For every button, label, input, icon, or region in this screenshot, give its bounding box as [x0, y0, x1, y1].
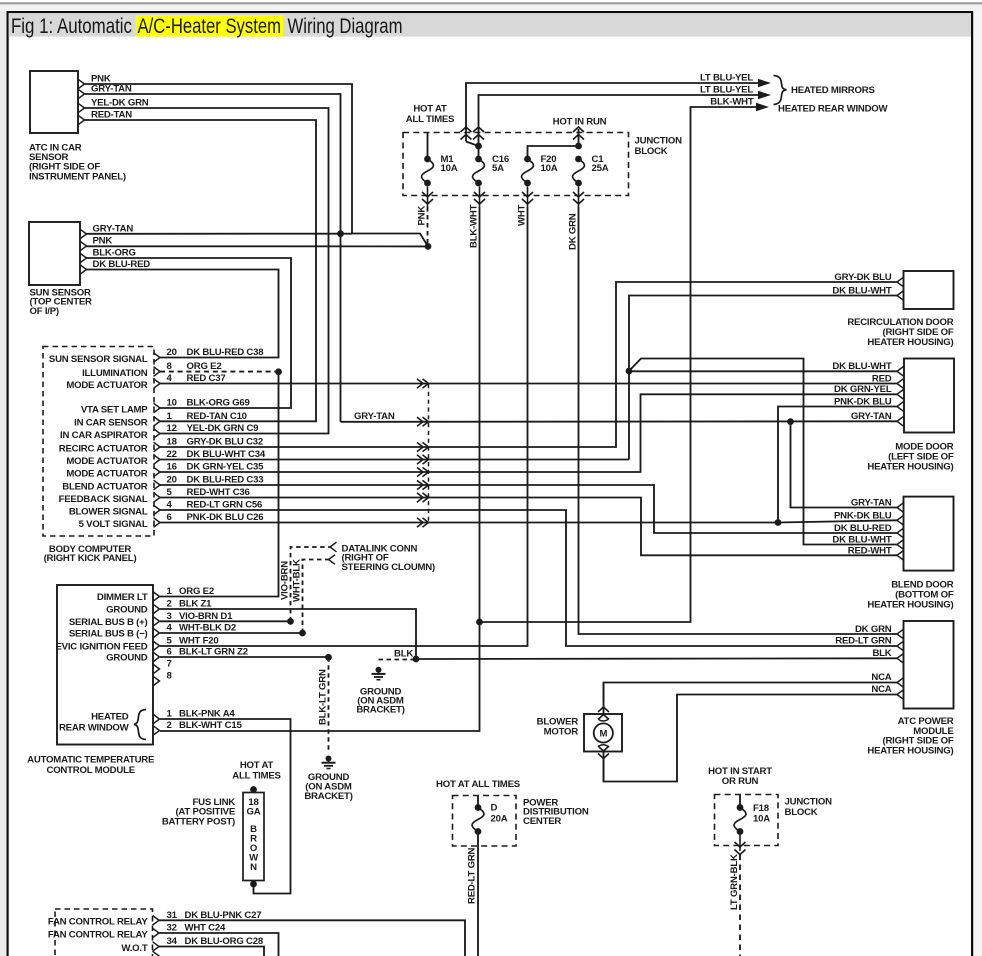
junction block dashed box (F18) — [715, 795, 779, 846]
svg-text:4: 4 — [167, 500, 173, 511]
svg-text:6: 6 — [167, 647, 172, 658]
svg-text:BLK Z1: BLK Z1 — [179, 599, 212, 610]
svg-text:20A: 20A — [491, 813, 508, 824]
svg-text:ALL TIMES: ALL TIMES — [232, 770, 281, 781]
ATC module pin 2 (BLK Z1) — [106, 599, 212, 616]
connector on DK GRN-YEL wire — [417, 467, 429, 476]
svg-text:HEATER HOUSING): HEATER HOUSING) — [867, 745, 953, 756]
svg-text:ORG E2: ORG E2 — [179, 586, 214, 597]
body computer pin 1 (RED-TAN C10) — [74, 411, 247, 429]
pin 1 of blend door — [897, 503, 904, 513]
body computer pin 10 (BLK-ORG G69) — [81, 398, 250, 416]
svg-text:BLK-LT GRN Z2: BLK-LT GRN Z2 — [179, 647, 248, 658]
wire DK GRN from C1 fuse to ATC power module — [568, 207, 897, 634]
body computer pin 16 (DK GRN-YEL C35) — [66, 462, 264, 480]
svg-text:IN CAR SENSOR: IN CAR SENSOR — [74, 418, 148, 429]
svg-text:BLK-WHT: BLK-WHT — [469, 204, 480, 248]
svg-text:GRY-DK BLU: GRY-DK BLU — [834, 272, 891, 283]
svg-text:32: 32 — [167, 923, 177, 934]
label HOT AT ALL TIMES (junction block) — [406, 104, 455, 125]
svg-text:PNK: PNK — [417, 206, 428, 226]
svg-text:10A: 10A — [753, 814, 770, 825]
svg-text:IN CAR ASPIRATOR: IN CAR ASPIRATOR — [60, 430, 148, 441]
svg-text:JUNCTION: JUNCTION — [635, 136, 683, 147]
label HEATED REAR WINDOW — [778, 103, 889, 114]
svg-text:DK BLU-RED C33: DK BLU-RED C33 — [187, 475, 264, 486]
M1 output arrows — [422, 187, 433, 208]
svg-text:HEATER HOUSING): HEATER HOUSING) — [867, 599, 953, 610]
label DK GRN at ATC power module — [855, 624, 892, 635]
svg-text:1: 1 — [167, 586, 173, 597]
svg-text:VIO-BRN: VIO-BRN — [280, 561, 291, 600]
svg-text:16: 16 — [167, 462, 177, 473]
svg-text:WHT F20: WHT F20 — [179, 635, 219, 646]
pin NCA 2 of ATC power module — [897, 690, 904, 700]
svg-text:8: 8 — [167, 671, 173, 682]
wire DK BLU-WHT to blend door (upper run) — [629, 359, 897, 545]
junction block dashed box — [403, 133, 629, 196]
svg-text:GA: GA — [247, 807, 261, 818]
blower motor box — [584, 714, 622, 752]
title bar highlight — [136, 15, 284, 37]
svg-text:RED-TAN: RED-TAN — [91, 109, 132, 120]
brace for heated mirrors — [774, 76, 787, 105]
pin 1 of ATC sensor — [78, 79, 85, 89]
ATC module pin 8 — [153, 671, 173, 686]
datalink connector fork 1 — [330, 542, 337, 552]
svg-text:EVIC IGNITION FEED: EVIC IGNITION FEED — [56, 641, 148, 652]
wire DK BLU-ORG C28 — [159, 947, 264, 956]
wire PNK from M1 fuse (dashed) — [417, 206, 428, 244]
svg-text:INSTRUMENT PANEL): INSTRUMENT PANEL) — [29, 171, 126, 182]
svg-text:YEL-DK GRN C9: YEL-DK GRN C9 — [187, 423, 259, 434]
body computer pin 20 (DK BLU-RED C38) — [49, 347, 264, 365]
svg-text:LT BLU-YEL: LT BLU-YEL — [700, 72, 753, 83]
ground (on ASDM bracket) lower — [322, 756, 336, 769]
arrow to heated mirrors 2 — [700, 84, 771, 99]
wire NCA (blower return) — [604, 684, 898, 782]
svg-text:20: 20 — [167, 347, 177, 358]
wire PNK from sun sensor — [87, 235, 426, 246]
wire BLK-LT GRN Z2 from ATC module pin 6 — [160, 656, 326, 658]
svg-text:7: 7 — [167, 659, 172, 670]
F20 output arrows — [522, 187, 533, 208]
svg-text:DK BLU-RED: DK BLU-RED — [834, 523, 892, 534]
svg-text:1: 1 — [167, 411, 173, 422]
svg-text:2: 2 — [167, 599, 172, 610]
svg-text:WHT C24: WHT C24 — [185, 923, 226, 934]
body computer pin 8 (ORG E2) — [82, 361, 221, 379]
connector on DK BLU-WHT wire — [417, 455, 429, 464]
pin 5 of mode door — [897, 417, 904, 427]
blower motor circle — [594, 723, 613, 742]
wire PNK from ATC sensor to M1 fuse net — [85, 73, 429, 246]
label HOT IN START OR RUN — [708, 766, 772, 787]
svg-text:GRY-DK BLU C32: GRY-DK BLU C32 — [187, 437, 264, 448]
svg-text:N: N — [250, 862, 257, 873]
svg-text:DK BLU-ORG C28: DK BLU-ORG C28 — [185, 936, 264, 947]
svg-text:STEERING CLOUMN): STEERING CLOUMN) — [342, 562, 436, 573]
svg-text:D: D — [491, 803, 498, 814]
mode door caption — [867, 442, 953, 473]
wire GRY-TAN from sun sensor — [87, 223, 353, 234]
wire LT BLU-YEL riser 2 (to heated mirrors) — [479, 95, 764, 146]
C16 output arrows — [474, 187, 485, 208]
svg-text:6: 6 — [167, 512, 172, 523]
label HOT AT ALL TIMES (fusible link) — [232, 760, 281, 781]
svg-text:VIO-BRN D1: VIO-BRN D1 — [179, 611, 233, 622]
label RED-LT GRN at ATC power module — [835, 636, 892, 647]
svg-text:BATTERY POST): BATTERY POST) — [162, 816, 235, 827]
wire LT BLU-YEL riser 1 (to heated mirrors) — [466, 83, 763, 146]
fan control relay pin 34 (DK BLU-ORG C28) — [121, 936, 263, 954]
wire BLK-WHT branch to heated rear window — [480, 107, 762, 622]
svg-text:5: 5 — [167, 487, 173, 498]
pin BLK of ATC power module — [897, 654, 904, 664]
fuse F18 10A feed stub — [739, 795, 741, 808]
svg-text:FAN CONTROL RELAY: FAN CONTROL RELAY — [48, 917, 148, 928]
pin NCA 1 of ATC power module — [897, 678, 904, 688]
wire DK BLU-WHT from body computer pin 22 (riser) — [160, 371, 629, 460]
connector arrows up (riser 2) — [473, 127, 484, 140]
body computer dashed box — [43, 347, 154, 537]
svg-text:BLOWER: BLOWER — [537, 716, 579, 727]
svg-text:5 VOLT SIGNAL: 5 VOLT SIGNAL — [79, 519, 148, 530]
wire WHT-BLK D2 stub — [160, 632, 300, 634]
svg-text:DK GRN-YEL C35: DK GRN-YEL C35 — [187, 462, 265, 473]
svg-text:NCA: NCA — [871, 672, 891, 683]
svg-text:GROUND: GROUND — [106, 605, 148, 616]
fuse M1 10A — [422, 154, 458, 186]
svg-text:DK GRN: DK GRN — [855, 624, 892, 635]
C1 feed node — [575, 143, 582, 150]
svg-text:DK BLU-WHT: DK BLU-WHT — [832, 361, 891, 372]
wire GRY-TAN to blend door — [791, 422, 898, 509]
heated rear window pins of ATC module — [153, 709, 242, 736]
node BLK junction — [413, 656, 420, 663]
pin 4 of blend door — [897, 540, 904, 550]
svg-text:18: 18 — [167, 437, 178, 448]
svg-text:RED-TAN C10: RED-TAN C10 — [187, 411, 247, 422]
svg-text:HEATED: HEATED — [91, 712, 129, 723]
ATC power module box — [904, 621, 954, 709]
F18 output arrows — [735, 832, 746, 855]
wire VIO-BRN D1 stub — [160, 620, 288, 622]
svg-text:MOTOR: MOTOR — [544, 727, 579, 738]
connector arrows up (riser 1) — [461, 127, 472, 140]
sun sensor box — [29, 222, 80, 285]
pin 4 of ATC sensor — [78, 115, 85, 125]
body computer pin 18 (GRY-DK BLU C32) — [59, 437, 263, 455]
ATC module pin 7 — [153, 659, 172, 674]
wire WHT C24 — [159, 933, 279, 956]
wire ORG E2 (dashed) from body computer pin 8 — [160, 371, 276, 373]
recirculation door caption — [847, 317, 954, 348]
svg-text:25A: 25A — [592, 163, 609, 174]
inline connector dashed line (instrument panel connector) — [428, 384, 430, 523]
fan control relay pin 31 (DK BLU-PNK C27) — [48, 910, 262, 928]
fuse C1 25A — [573, 154, 609, 186]
svg-text:GROUND: GROUND — [106, 653, 148, 664]
blend door box — [904, 497, 954, 571]
node BLK-LT GRN junction — [325, 654, 332, 661]
node WHT-BLK junction — [299, 630, 306, 637]
wire BLK-ORG from sun sensor to body computer pin 10 — [87, 247, 292, 408]
svg-text:20: 20 — [167, 475, 177, 486]
C16 feed node — [475, 143, 482, 150]
wire DK BLU-RED to blend door (from body computer pin 20) — [160, 485, 897, 534]
svg-text:GRY-TAN: GRY-TAN — [93, 223, 134, 234]
svg-text:HEATER HOUSING): HEATER HOUSING) — [867, 337, 953, 348]
wire RED C37 to mode door (from body computer pin 4) — [160, 373, 897, 384]
svg-text:CONTROL MODULE: CONTROL MODULE — [46, 765, 135, 776]
svg-text:DK BLU-WHT: DK BLU-WHT — [832, 535, 891, 546]
svg-text:GRY-TAN: GRY-TAN — [91, 83, 132, 94]
wire GRY-DK BLU to recirculation door (from body computer pin 18) — [160, 272, 897, 447]
wire WHT-BLK to datalink connector (dashed) — [292, 559, 329, 633]
svg-text:BLK-WHT: BLK-WHT — [710, 96, 754, 107]
pin RED-LT GRN of ATC power module — [897, 641, 904, 651]
node DK BLU-WHT junction — [626, 368, 633, 375]
svg-text:YEL-DK GRN: YEL-DK GRN — [91, 97, 149, 108]
svg-text:DK BLU-WHT: DK BLU-WHT — [832, 286, 891, 297]
svg-text:MODE ACTUATOR: MODE ACTUATOR — [66, 380, 147, 391]
wire WHT from F20 fuse to ATC module pin 5 — [160, 204, 528, 646]
svg-text:5: 5 — [167, 635, 173, 646]
svg-text:BRACKET): BRACKET) — [304, 791, 352, 802]
ground caption lower — [304, 772, 352, 802]
heated rear window label with brace — [59, 710, 146, 740]
wire HOT IN RUN feed (C1 riser) — [578, 129, 580, 146]
svg-text:PNK-DK BLU C26: PNK-DK BLU C26 — [187, 512, 264, 523]
svg-text:FEEDBACK SIGNAL: FEEDBACK SIGNAL — [59, 494, 148, 505]
svg-text:BLK-WHT C15: BLK-WHT C15 — [179, 720, 242, 731]
pin 2 of ATC sensor — [78, 89, 85, 99]
wire BLK-PNK A4 from ATC module to fusible link — [160, 719, 291, 894]
svg-text:SUN SENSOR SIGNAL: SUN SENSOR SIGNAL — [49, 354, 148, 365]
node GRY-TAN junction — [337, 230, 344, 237]
svg-text:BLK: BLK — [394, 649, 413, 660]
pin 1 of mode door — [897, 367, 904, 377]
svg-text:OF I/P): OF I/P) — [30, 306, 59, 317]
svg-text:DK GRN: DK GRN — [568, 213, 579, 250]
wire DK BLU-WHT to mode door — [629, 361, 897, 372]
svg-text:RED: RED — [872, 373, 892, 384]
wire GRY-TAN from ATC sensor (down to GRY-TAN bus) — [85, 83, 341, 422]
svg-text:SERIAL BUS B (−): SERIAL BUS B (−) — [69, 629, 148, 640]
wire RED-WHT to blend door (from body computer pin 5) — [160, 498, 897, 557]
svg-text:GRY-TAN: GRY-TAN — [851, 498, 892, 509]
wire NCA (blower feed) — [604, 672, 898, 702]
automatic temperature control module caption — [27, 755, 155, 776]
svg-text:HOT IN RUN: HOT IN RUN — [553, 117, 607, 128]
svg-text:10: 10 — [167, 398, 177, 409]
svg-text:REAR WINDOW: REAR WINDOW — [59, 723, 130, 734]
label HOT IN RUN — [553, 117, 607, 128]
svg-text:BLK-ORG: BLK-ORG — [93, 247, 136, 258]
svg-text:2: 2 — [167, 720, 172, 731]
svg-text:RED-LT GRN C56: RED-LT GRN C56 — [187, 500, 263, 511]
node GRY-TAN split — [787, 418, 794, 425]
body computer pin 6 (PNK-DK BLU C26) — [79, 512, 264, 530]
label HOT AT ALL TIMES (power distribution center) — [436, 779, 521, 790]
pin 3 of mode door — [897, 390, 904, 400]
pin 4 of mode door — [897, 402, 904, 412]
fuse D 20A — [472, 803, 508, 835]
datalink connector caption — [342, 543, 436, 573]
svg-text:12: 12 — [167, 423, 177, 434]
fan control relay pin 32 (WHT C24) — [48, 923, 226, 941]
C1 output arrows — [573, 187, 584, 208]
pin 3 of blend door — [897, 528, 904, 538]
body computer pin 20 (DK BLU-RED C33) — [62, 475, 263, 493]
wire BLK (dashed) to ground — [379, 649, 415, 660]
wire BLK Z1 from ATC module pin 2 — [160, 609, 416, 659]
blower motor label — [537, 716, 579, 737]
fuse M1 10A feed stub — [427, 133, 429, 157]
svg-text:4: 4 — [167, 373, 173, 384]
svg-text:DK GRN-YEL: DK GRN-YEL — [834, 384, 892, 395]
automatic temperature control module box — [57, 585, 153, 745]
pin 2 of sun sensor — [80, 241, 87, 251]
svg-text:VTA SET LAMP: VTA SET LAMP — [81, 404, 148, 415]
wire DK GRN-YEL to mode door (from body computer pin 16) — [160, 384, 897, 472]
fan control relay pin (W.O.T, cut off) — [153, 951, 160, 956]
node PNK-DK BLU split — [775, 519, 782, 526]
body computer pin 22 (DK BLU-WHT C34) — [66, 449, 266, 467]
body computer pin 12 (YEL-DK GRN C9) — [60, 423, 258, 441]
body computer caption — [44, 544, 137, 564]
connector on GRY-TAN wire — [417, 417, 429, 426]
wire VIO-BRN to datalink connector (dashed) — [280, 547, 330, 621]
svg-text:RED-WHT C36: RED-WHT C36 — [187, 487, 250, 498]
svg-text:NCA: NCA — [871, 684, 891, 695]
fuse F20 10A — [522, 154, 558, 186]
ATC module pin 5 (WHT F20) — [56, 635, 219, 652]
connector on DK BLU-RED wire — [417, 480, 429, 489]
datalink connector fork 2 — [329, 555, 336, 565]
wire RED-LT GRN from fuse D (to bottom of diagram) — [467, 832, 478, 956]
svg-text:22: 22 — [167, 449, 177, 460]
wire LT GRN-BLK (dashed, to bottom of diagram) — [729, 854, 740, 956]
body computer pin 5 (RED-WHT C36) — [59, 487, 250, 505]
svg-text:W.O.T: W.O.T — [121, 943, 147, 954]
fan control relay dashed box — [55, 909, 153, 956]
sun sensor caption — [30, 287, 93, 317]
svg-text:PNK-DK BLU: PNK-DK BLU — [834, 396, 892, 407]
power distribution center caption — [523, 798, 589, 827]
connector on GRY-DK BLU wire — [417, 442, 429, 451]
fusible link element — [243, 786, 264, 887]
svg-text:F18: F18 — [753, 803, 770, 814]
fusible link caption — [162, 797, 236, 828]
label JUNCTION BLOCK (F18) — [785, 797, 833, 818]
svg-text:ALL TIMES: ALL TIMES — [406, 114, 455, 125]
ATC power module caption — [867, 716, 954, 756]
wire PNK-DK BLU to mode door (riser from pin 6 net) — [778, 396, 897, 522]
svg-text:4: 4 — [167, 623, 173, 634]
svg-text:FAN CONTROL RELAY: FAN CONTROL RELAY — [48, 929, 148, 940]
svg-text:M: M — [599, 729, 607, 740]
connector arrows up (C1 riser) — [573, 127, 584, 140]
svg-text:RED-LT GRN: RED-LT GRN — [467, 847, 478, 904]
pin 4 of sun sensor — [80, 265, 87, 275]
wire RED-TAN from ATC sensor to body computer pin 1 — [85, 109, 317, 421]
svg-text:RECIRC ACTUATOR: RECIRC ACTUATOR — [59, 443, 148, 454]
svg-text:ILLUMINATION: ILLUMINATION — [82, 368, 148, 379]
wire DK BLU-RED from sun sensor to body computer pin 20 — [87, 259, 279, 358]
label HEATED MIRRORS — [791, 85, 875, 96]
svg-text:HEATED MIRRORS: HEATED MIRRORS — [791, 85, 875, 96]
svg-text:PNK: PNK — [93, 235, 113, 246]
pin 2 of mode door — [897, 379, 904, 389]
svg-text:PNK-DK BLU: PNK-DK BLU — [834, 510, 892, 521]
svg-text:RED C37: RED C37 — [187, 373, 226, 384]
pin 1 of sun sensor — [80, 229, 87, 239]
wire RED-LT GRN C56 to ATC power module — [160, 510, 897, 646]
wire GRY-TAN bus to mode door — [341, 411, 898, 422]
connector on PNK-DK BLU wire — [417, 518, 429, 527]
wire DK BLU-WHT to recirculation door (from DK BLU-WHT net) — [629, 286, 897, 372]
pin 2 of blend door — [897, 516, 904, 526]
ATC module pin 6 (BLK-LT GRN Z2) — [106, 647, 248, 664]
pin 1 of recirculation door — [897, 277, 904, 287]
wire BLK-WHT from C16 fuse (down to ATC module pin C15) — [160, 204, 480, 731]
body computer pin 4 (RED C37) — [66, 373, 225, 391]
svg-text:WHT-BLK: WHT-BLK — [292, 559, 303, 602]
svg-text:DK BLU-RED C38: DK BLU-RED C38 — [187, 347, 265, 358]
ground caption upper — [356, 686, 404, 715]
connector on RED-WHT wire — [417, 493, 429, 502]
wire ORG E2 riser to ATC module pin 1 — [160, 372, 279, 597]
ground (on ASDM bracket) upper — [372, 667, 386, 680]
wire DK BLU-PNK C27 — [159, 920, 465, 956]
svg-text:BLOCK: BLOCK — [635, 146, 668, 157]
svg-text:DK BLU-WHT C34: DK BLU-WHT C34 — [187, 449, 266, 460]
svg-text:DIMMER LT: DIMMER LT — [97, 592, 148, 603]
svg-text:MODE ACTUATOR: MODE ACTUATOR — [66, 468, 147, 479]
svg-text:HEATER HOUSING): HEATER HOUSING) — [867, 462, 953, 473]
pin 2 of recirculation door — [897, 291, 904, 301]
svg-text:MODE ACTUATOR: MODE ACTUATOR — [66, 456, 147, 467]
wire PNK-DK BLU C26 from body computer pin 6 — [160, 522, 778, 524]
svg-text:8: 8 — [167, 361, 173, 372]
svg-text:LT GRN-BLK: LT GRN-BLK — [729, 854, 740, 910]
svg-text:BLK-LT GRN: BLK-LT GRN — [318, 669, 329, 725]
svg-text:GRY-TAN: GRY-TAN — [354, 411, 395, 422]
svg-text:BLOWER SIGNAL: BLOWER SIGNAL — [69, 506, 148, 517]
blower motor connector arrows top — [598, 683, 609, 720]
svg-text:Fig 1: Automatic: Fig 1: Automatic — [11, 15, 132, 38]
fuse C16 5A link — [478, 146, 480, 159]
svg-text:1: 1 — [167, 709, 173, 720]
svg-text:BLEND ACTUATOR: BLEND ACTUATOR — [62, 481, 148, 492]
svg-text:GRY-TAN: GRY-TAN — [851, 411, 892, 422]
svg-text:34: 34 — [167, 936, 178, 947]
svg-text:CENTER: CENTER — [523, 816, 561, 827]
svg-text:BLK-PNK A4: BLK-PNK A4 — [179, 709, 235, 720]
blower motor brush marks — [599, 720, 609, 747]
svg-text:3: 3 — [167, 611, 172, 622]
connector on RED wire — [417, 379, 429, 388]
svg-text:(RIGHT KICK PANEL): (RIGHT KICK PANEL) — [44, 553, 137, 564]
svg-text:BRACKET): BRACKET) — [356, 704, 404, 715]
svg-text:BLOCK: BLOCK — [785, 807, 818, 818]
svg-text:HEATED REAR WINDOW: HEATED REAR WINDOW — [778, 103, 889, 114]
blower motor connector arrows bottom — [598, 746, 609, 782]
wire YEL-DK GRN from ATC sensor to body computer pin 12 — [85, 97, 329, 433]
svg-text:Wiring Diagram: Wiring Diagram — [288, 15, 403, 38]
